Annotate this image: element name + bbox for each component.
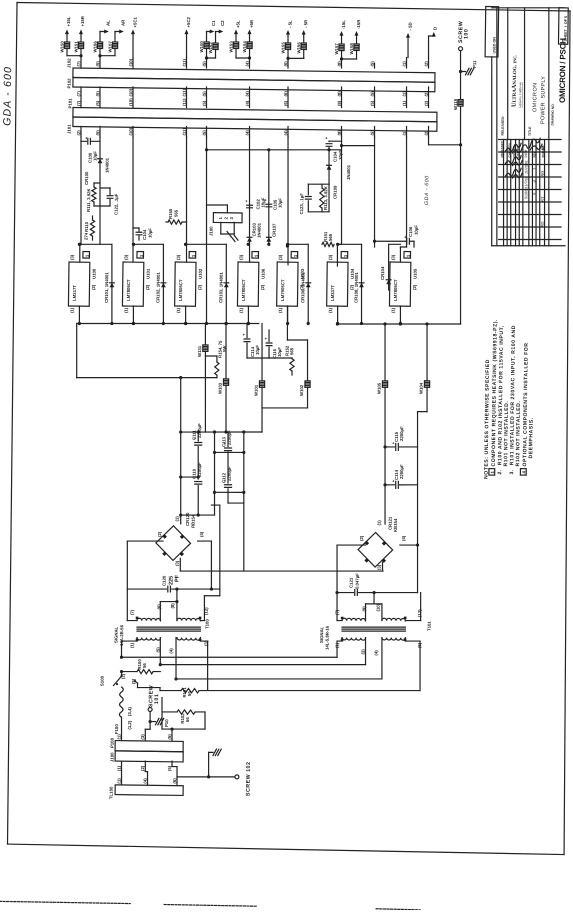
- svg-text:4: 4: [521, 471, 526, 474]
- svg-text:W155: W155: [281, 42, 286, 54]
- wire tie y477: [181, 475, 200, 478]
- svg-text:C2: C2: [220, 20, 225, 26]
- wires P100 to TL100: [121, 760, 177, 785]
- svg-text:(5): (5): [202, 100, 207, 106]
- wire mid rail x214: [212, 432, 217, 515]
- svg-text:2200µF: 2200µF: [399, 464, 404, 479]
- wire bridge1 right arm: [197, 541, 214, 591]
- svg-text:T101: T101: [427, 621, 432, 631]
- svg-text:POWER SUPPLY: POWER SUPPLY: [540, 76, 547, 124]
- svg-text:(11): (11): [182, 88, 187, 96]
- svg-text:C104: C104: [142, 229, 147, 240]
- svg-text:(2): (2): [424, 61, 429, 67]
- bus pin column x=406.5 pins (1)/(1): [401, 57, 408, 137]
- wire tie y515: [181, 513, 215, 517]
- svg-text:CR120: CR120: [185, 512, 190, 526]
- wire TL100 to screw102: [0, 0, 1, 1]
- wire rail y145 to pin(5): [342, 144, 375, 147]
- svg-text:1: 1: [191, 254, 196, 257]
- svg-text:R111, 3.92K: R111, 3.92K: [86, 187, 91, 212]
- signal arrow +5C2: [184, 16, 191, 57]
- wire AC bus line 3: [176, 676, 382, 681]
- jumper W102: [299, 340, 311, 408]
- wire left rail drop: [76, 324, 77, 378]
- svg-text:Lafayette, California: Lafayette, California: [518, 82, 523, 109]
- svg-text:C1: C1: [211, 20, 216, 26]
- svg-text:CR104: CR104: [380, 266, 385, 280]
- svg-text:- 5R: - 5R: [303, 19, 308, 28]
- svg-text:3: 3: [229, 216, 234, 219]
- svg-text:W151: W151: [74, 41, 79, 53]
- connector J102 (power bus half): [66, 58, 435, 82]
- svg-text:CR100: CR100: [84, 171, 89, 185]
- bridge rectifier CR120 RB154: [156, 512, 205, 567]
- wire ties right chain: [214, 452, 245, 503]
- svg-text:10µF: 10µF: [338, 150, 343, 160]
- svg-text:C120: C120: [162, 575, 167, 586]
- used-on tab: [485, 6, 499, 56]
- svg-text:+: +: [325, 136, 328, 141]
- capacitor C113 2200uF: [221, 430, 232, 483]
- jumper W104: [415, 324, 430, 593]
- svg-text:PF: PF: [175, 574, 181, 582]
- chassis ground at screw 100: [459, 51, 478, 100]
- svg-text:W118: W118: [453, 98, 458, 110]
- capacitor C100 10uF: [81, 135, 100, 163]
- svg-text:W157: W157: [334, 43, 339, 55]
- signal arrow -15L: [339, 20, 346, 59]
- svg-text:+15L: +15L: [66, 16, 71, 26]
- svg-text:KB154: KB154: [393, 518, 398, 532]
- svg-text:11/20/91: 11/20/91: [524, 160, 528, 174]
- wire T100 primary leads: [119, 637, 208, 691]
- svg-text:- 5L: - 5L: [288, 20, 293, 28]
- svg-text:(3): (3): [140, 734, 145, 740]
- wire W118 to D rail: [459, 106, 463, 146]
- title signatures scribble: [522, 138, 542, 150]
- svg-text:W158: W158: [349, 43, 354, 55]
- signal arrow -5D: [406, 22, 413, 57]
- wire +15 output rail: [77, 320, 259, 327]
- svg-text:W152: W152: [208, 42, 213, 54]
- svg-text:1: 1: [218, 216, 223, 219]
- fuse F100 5/8A: [114, 687, 123, 741]
- svg-text:(3): (3): [361, 649, 366, 655]
- svg-text:LM7805CT: LM7805CT: [241, 279, 246, 301]
- svg-text:W101: W101: [254, 384, 259, 396]
- svg-text:U102: U102: [198, 268, 203, 279]
- label R152 75 5W: [0, 0, 1, 1]
- svg-text:LM7805CT: LM7805CT: [126, 279, 131, 301]
- svg-text:P100: P100: [110, 737, 115, 748]
- signal arrow +5R: [247, 19, 254, 58]
- connector J101 (power bus half): [67, 117, 437, 139]
- jumper W118: [453, 98, 463, 110]
- transformer T101 SIGNAL 14L-5.8R-16: [319, 603, 432, 657]
- svg-text:(11): (11): [182, 58, 187, 66]
- svg-text:W102: W102: [299, 384, 304, 396]
- capacitor C101 10uF: [133, 228, 153, 241]
- svg-text:(2): (2): [121, 673, 126, 679]
- svg-text:1: 1: [139, 254, 144, 257]
- svg-text:56: 56: [187, 691, 192, 696]
- wire join +5 pins: [236, 56, 251, 59]
- svg-text:W107: W107: [108, 41, 113, 53]
- connector P101 (power bus half): [67, 98, 437, 122]
- svg-text:C106: C106: [408, 226, 413, 237]
- svg-text:U100: U100: [92, 268, 97, 279]
- svg-text:CR108, 1N4001: CR108, 1N4001: [354, 272, 359, 303]
- wire pin(4) drop to U106: [246, 137, 251, 262]
- product title OMICRON POWER SUPPLY: [528, 76, 547, 137]
- signal arrow C1: [206, 20, 216, 42]
- bus pin column x=374.5 pins (5)/(5): [369, 61, 376, 137]
- svg-text:10µF: 10µF: [93, 151, 98, 161]
- bus pin column x=206.5 pins (5)/(5): [201, 57, 208, 137]
- signal arrow C2: [215, 20, 225, 43]
- wire pin(10) drop to U101: [131, 137, 136, 262]
- jumper W107: [108, 41, 118, 53]
- svg-text:1: 1: [406, 254, 411, 257]
- wire join A pins: [98, 48, 115, 57]
- wire T100 center tap: [160, 589, 179, 621]
- svg-text:(3): (3): [176, 254, 181, 260]
- svg-text:SIGNAL: SIGNAL: [114, 626, 119, 643]
- svg-text:LM317T: LM317T: [72, 285, 77, 301]
- svg-text:R110: R110: [84, 221, 89, 232]
- wire U102 output: [184, 306, 187, 325]
- svg-text:(2): (2): [424, 91, 429, 97]
- jumper W155: [281, 42, 291, 54]
- bus pin column x=288 pins (6)/(4): [282, 57, 289, 137]
- part number GDA-600: [424, 175, 430, 205]
- svg-text:W100: W100: [199, 41, 204, 53]
- svg-text:P101: P101: [68, 98, 73, 109]
- jumper W154: [242, 41, 252, 53]
- labels fuse wiring: [127, 707, 132, 730]
- svg-text:SIGNAL: SIGNAL: [319, 626, 324, 643]
- svg-text:U101: U101: [146, 268, 151, 279]
- resistor R102 56ohm loop: [162, 698, 206, 730]
- svg-text:SHEET I OF 5: SHEET I OF 5: [564, 16, 568, 42]
- svg-text:U106: U106: [261, 268, 266, 279]
- svg-text:(2): (2): [359, 535, 364, 541]
- svg-text:W156: W156: [296, 42, 301, 54]
- svg-text:(1): (1): [328, 307, 333, 313]
- svg-text:(1): (1): [117, 734, 122, 740]
- wire long rail y377: [77, 375, 217, 380]
- capacitor C115 10uF: [247, 330, 282, 359]
- svg-text:(2): (2): [260, 284, 265, 290]
- svg-text:(4): (4): [245, 61, 250, 67]
- svg-text:(1): (1): [239, 307, 244, 313]
- svg-text:(6): (6): [283, 61, 288, 67]
- svg-text:565: 565: [289, 347, 294, 355]
- signal arrow +5C1: [131, 16, 138, 57]
- svg-text:(7): (7): [76, 61, 81, 67]
- switch S100: [99, 671, 137, 687]
- jumper W103: [217, 322, 229, 432]
- sheet box SHEET 1 OF 5: [558, 8, 568, 44]
- svg-text:- 5D: - 5D: [408, 22, 413, 30]
- svg-text:565: 565: [328, 233, 333, 241]
- capacitor C111 2200uF: [191, 423, 202, 477]
- svg-text:(2): (2): [91, 284, 96, 290]
- svg-text:(11): (11): [182, 127, 187, 135]
- svg-text:(7): (7): [76, 100, 81, 106]
- wire pin(11) drop to U102: [184, 137, 189, 262]
- svg-text:10µF: 10µF: [255, 345, 260, 355]
- svg-text:59: 59: [540, 171, 546, 177]
- wires J100 pins with twist marks: [206, 205, 238, 242]
- svg-text:565: 565: [174, 209, 179, 217]
- capacitor C114 10uF: [242, 323, 260, 358]
- svg-text:10µF: 10µF: [148, 228, 153, 238]
- svg-text:(10): (10): [128, 58, 133, 66]
- svg-text:(10): (10): [376, 603, 381, 611]
- diode CR108 1N4001 bypass: [335, 243, 365, 325]
- wire bridge2 left arm: [335, 545, 365, 595]
- released label: [501, 8, 510, 140]
- svg-text:(1): (1): [402, 91, 407, 97]
- svg-text:J101: J101: [67, 124, 72, 134]
- svg-text:P11: P11: [472, 60, 477, 68]
- svg-text:+: +: [243, 332, 246, 337]
- notes text block: [484, 319, 536, 480]
- svg-text:(4): (4): [401, 535, 406, 541]
- jumper W152: [208, 42, 218, 54]
- svg-text:14L-5.8R-16: 14L-5.8R-16: [325, 625, 330, 650]
- wire AC bus line 1: [122, 654, 338, 660]
- svg-text:63: 63: [540, 196, 546, 202]
- svg-text:(10): (10): [128, 98, 133, 106]
- svg-text:S100: S100: [100, 675, 105, 686]
- wire AC bus line 4 with R101: [137, 637, 420, 700]
- svg-text:(2): (2): [197, 284, 202, 290]
- svg-text:+5C1: +5C1: [133, 16, 138, 27]
- svg-text:(4): (4): [283, 130, 288, 136]
- svg-text:W106: W106: [93, 41, 98, 53]
- svg-text:C123, .1µF: C123, .1µF: [299, 193, 304, 215]
- jumper W101: [253, 323, 265, 408]
- svg-text:R102 NOT INSTALLED.: R102 NOT INSTALLED.: [515, 401, 522, 467]
- revision table headers: [500, 140, 545, 158]
- svg-text:1: 1: [254, 254, 259, 257]
- svg-text:P102: P102: [67, 78, 72, 89]
- svg-text:DRAWING NO.: DRAWING NO.: [551, 103, 555, 125]
- svg-text:+5L: +5L: [236, 20, 241, 28]
- transformer T100 SIGNAL 14A-2B-56: [113, 602, 209, 654]
- svg-text:10µF: 10µF: [277, 347, 282, 357]
- jumper W153: [229, 41, 239, 53]
- svg-text:(5): (5): [370, 91, 375, 97]
- svg-text:(5): (5): [370, 130, 375, 136]
- wire negative output rail: [336, 321, 461, 327]
- wire join C pins: [205, 48, 216, 59]
- bypass branch C105/CR107: [263, 150, 283, 246]
- signal arrow D: [428, 27, 437, 58]
- svg-text:W150: W150: [60, 41, 65, 53]
- svg-text:CR106, 1N4001: CR106, 1N4001: [300, 272, 305, 303]
- svg-text:(1): (1): [117, 778, 122, 784]
- svg-text:2200µF: 2200µF: [399, 426, 404, 441]
- svg-text:+: +: [265, 336, 268, 341]
- svg-text:+15R: +15R: [80, 15, 85, 26]
- labels P100 pins: [116, 733, 172, 772]
- svg-text:1: 1: [85, 254, 90, 257]
- svg-text:(6): (6): [172, 778, 177, 784]
- wire right rail x243: [241, 432, 247, 571]
- svg-text:REV: REV: [533, 151, 537, 157]
- wire U105 output: [399, 306, 402, 325]
- resistor R100 56ohm: [120, 658, 161, 674]
- svg-text:OMICRON: OMICRON: [532, 82, 538, 112]
- svg-text:(2): (2): [76, 130, 81, 136]
- svg-text:GDA - 600: GDA - 600: [424, 175, 430, 205]
- signal arrow AR: [115, 19, 126, 42]
- svg-text:W104: W104: [419, 382, 424, 394]
- svg-text:(5): (5): [95, 130, 100, 136]
- svg-text:(3,4): (3,4): [127, 707, 132, 716]
- terminal strip TL100: [109, 777, 184, 800]
- svg-text:GDA - 600: GDA - 600: [1, 66, 14, 126]
- capacitor C112 2200uF: [221, 466, 232, 503]
- diode CR106 1N4001 bypass: [285, 243, 311, 325]
- wire join W101/W102: [262, 407, 308, 432]
- svg-text:J100: J100: [209, 226, 214, 236]
- svg-text:(3): (3): [70, 254, 75, 260]
- svg-text:USED ON: USED ON: [492, 37, 496, 54]
- capacitor C120 225PF: [127, 574, 220, 593]
- signal arrow -5R: [301, 19, 308, 59]
- handwritten sheet label GDA-600: [1, 66, 14, 126]
- capacitor C123 0.1uF with R113 3.92K: [299, 184, 329, 215]
- label 1N4001 on -15 feed: [346, 164, 351, 180]
- svg-text:(5): (5): [202, 130, 207, 136]
- svg-text:1: 1: [532, 168, 537, 170]
- svg-text:(6): (6): [283, 100, 288, 106]
- drawing number column: [546, 8, 568, 246]
- svg-text:SCREW 102: SCREW 102: [246, 761, 252, 796]
- revision table handwritten entries: [505, 143, 548, 228]
- resistor R110 274: [84, 216, 95, 240]
- svg-text:+: +: [264, 198, 267, 203]
- svg-text:(1): (1): [402, 130, 407, 136]
- wire T100 pin12 riser: [200, 505, 221, 621]
- svg-text:(5): (5): [370, 61, 375, 67]
- wire bridge2 right arm: [400, 543, 419, 546]
- capacitor C110 2200uF: [191, 462, 202, 515]
- bus pin column x=428.5 pins (2)/(2): [423, 57, 430, 137]
- jumper W157: [334, 43, 344, 55]
- svg-text:(10): (10): [128, 88, 133, 96]
- capacitor C106 10uF: [374, 224, 418, 247]
- diode CR103 1N4001 bypass: [183, 243, 229, 325]
- svg-text:(8): (8): [337, 91, 342, 97]
- svg-text:(5): (5): [202, 91, 207, 97]
- svg-text:+: +: [245, 199, 248, 204]
- svg-text:2200µF: 2200µF: [197, 423, 202, 438]
- svg-text:2: 2: [224, 216, 229, 219]
- svg-text:CR107: CR107: [272, 223, 277, 237]
- svg-text:(8): (8): [337, 61, 342, 67]
- jumper W156: [296, 42, 306, 54]
- wire D net pin(2) drop: [426, 137, 463, 324]
- wire ground bus pin(5) mid: [203, 137, 211, 325]
- wire U103 output to W102: [287, 306, 308, 340]
- svg-text:(4): (4): [245, 100, 250, 106]
- svg-text:(12): (12): [417, 609, 422, 617]
- svg-text:(1): (1): [124, 307, 129, 313]
- svg-text:CR101, 1N4001: CR101, 1N4001: [104, 272, 109, 303]
- svg-text:C122, .1µF: C122, .1µF: [114, 193, 119, 215]
- wire AC bus line 2: [160, 662, 365, 667]
- wire U103 output: [286, 306, 289, 325]
- svg-text:(3): (3): [239, 254, 244, 260]
- svg-text:(5): (5): [95, 61, 100, 67]
- wire pin(8) drop to U104: [337, 137, 343, 266]
- wire pin(5) drop right: [373, 137, 378, 247]
- svg-text:(7): (7): [130, 609, 135, 615]
- svg-text:F100: F100: [114, 724, 119, 734]
- svg-text:CR109: CR109: [333, 185, 338, 199]
- resistor R151 565: [322, 231, 334, 246]
- svg-text:(1): (1): [130, 642, 135, 648]
- jumper W100: [199, 41, 209, 53]
- svg-text:RB154: RB154: [191, 514, 196, 528]
- svg-text:274: 274: [84, 232, 89, 240]
- scan streak bottom: [0, 901, 420, 910]
- svg-text:0.047µF: 0.047µF: [355, 573, 360, 589]
- wire TL100 right to screw102 node: [0, 0, 1, 1]
- wire pin(4) drop to U103: [286, 137, 291, 265]
- wire U101 output: [132, 306, 135, 325]
- bus pin column x=81 pins (7)/(2): [75, 57, 82, 137]
- svg-text:1: 1: [343, 254, 348, 257]
- jumper W158: [349, 43, 359, 55]
- svg-text:100: 100: [464, 29, 470, 39]
- svg-text:56: 56: [142, 663, 147, 668]
- terminal SCREW 100: [458, 21, 470, 51]
- wire screw101 to P100: [145, 729, 150, 740]
- svg-text:T100: T100: [205, 619, 210, 629]
- svg-text:(1): (1): [377, 520, 382, 526]
- svg-text:(4): (4): [374, 650, 379, 656]
- svg-text:-15R: -15R: [356, 19, 361, 29]
- svg-text:D: D: [433, 27, 438, 30]
- svg-text:TITLE: TITLE: [528, 126, 532, 136]
- svg-text:+5C2: +5C2: [186, 16, 191, 27]
- svg-text:(1): (1): [391, 307, 396, 313]
- jumper W151: [74, 41, 84, 53]
- svg-text:(1): (1): [402, 100, 407, 106]
- svg-text:(3): (3): [278, 254, 283, 260]
- jumper W106: [93, 41, 103, 53]
- signal arrow +5L: [234, 20, 241, 58]
- svg-text:(2): (2): [145, 284, 150, 290]
- svg-text:(1): (1): [175, 516, 180, 522]
- wire bridge1 bottom to common rail: [180, 558, 383, 573]
- wire U106 output: [247, 306, 250, 325]
- svg-text:LM7805CT: LM7805CT: [178, 279, 183, 301]
- svg-text:W105: W105: [377, 382, 382, 394]
- svg-text:(4): (4): [143, 778, 148, 784]
- voltage regulator U102 LM7805CT: [175, 251, 204, 313]
- svg-text:1N4001: 1N4001: [346, 164, 351, 180]
- svg-text:(5): (5): [95, 100, 100, 106]
- svg-text:(1,2): (1,2): [127, 720, 132, 729]
- svg-text:J102: J102: [67, 58, 72, 68]
